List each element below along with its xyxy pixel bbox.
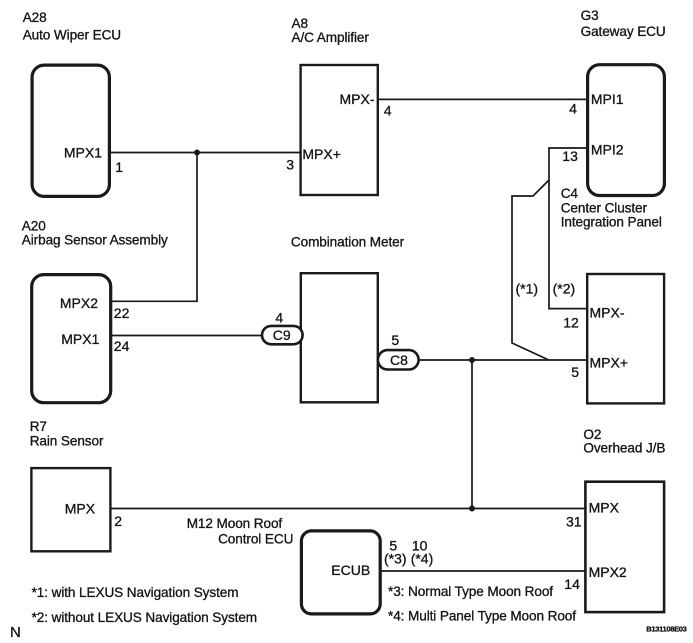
svg-text:MPX1: MPX1 [61, 331, 99, 347]
svg-text:MPX1: MPX1 [64, 145, 102, 161]
svg-text:Control ECU: Control ECU [218, 531, 293, 546]
svg-text:B131108E03: B131108E03 [646, 625, 686, 634]
svg-text:5: 5 [571, 364, 579, 380]
svg-text:Rain Sensor: Rain Sensor [30, 434, 104, 449]
svg-text:A8: A8 [292, 16, 308, 31]
svg-text:MPI1: MPI1 [591, 91, 624, 107]
svg-text:Overhead J/B: Overhead J/B [583, 441, 665, 456]
svg-text:4: 4 [275, 309, 283, 325]
svg-text:MPX: MPX [589, 500, 620, 516]
svg-text:*2: without LEXUS Navigation S: *2: without LEXUS Navigation System [32, 610, 257, 625]
svg-text:(*1): (*1) [516, 281, 539, 297]
svg-text:5: 5 [391, 332, 399, 348]
svg-text:Gateway ECU: Gateway ECU [581, 24, 666, 39]
svg-text:Combination Meter: Combination Meter [291, 234, 405, 249]
svg-text:C4: C4 [561, 186, 579, 201]
svg-text:Airbag Sensor Assembly: Airbag Sensor Assembly [22, 232, 168, 247]
svg-text:(*3): (*3) [384, 550, 407, 566]
svg-text:24: 24 [114, 338, 130, 354]
svg-text:MPX: MPX [65, 501, 96, 517]
svg-text:*3: Normal Type Moon Roof: *3: Normal Type Moon Roof [388, 584, 553, 599]
svg-text:MPI2: MPI2 [591, 142, 624, 158]
svg-text:G3: G3 [581, 8, 599, 23]
svg-text:*1: with LEXUS Navigation Syst: *1: with LEXUS Navigation System [32, 585, 239, 600]
svg-text:Integration Panel: Integration Panel [561, 215, 662, 230]
svg-text:(*4): (*4) [411, 550, 434, 566]
svg-text:N: N [10, 624, 21, 641]
svg-text:Auto Wiper ECU: Auto Wiper ECU [23, 27, 121, 42]
svg-text:(*2): (*2) [553, 281, 576, 297]
svg-text:MPX-: MPX- [590, 304, 625, 320]
svg-text:Center Cluster: Center Cluster [561, 201, 648, 216]
svg-text:C9: C9 [273, 327, 291, 343]
svg-text:4: 4 [569, 101, 577, 117]
svg-text:13: 13 [562, 148, 578, 164]
svg-text:C8: C8 [390, 352, 408, 368]
svg-text:31: 31 [566, 513, 582, 529]
svg-text:14: 14 [564, 576, 580, 592]
svg-text:M12 Moon Roof: M12 Moon Roof [187, 516, 283, 531]
svg-text:12: 12 [563, 315, 579, 331]
svg-text:1: 1 [115, 159, 123, 175]
svg-text:22: 22 [114, 305, 130, 321]
svg-text:3: 3 [286, 157, 294, 173]
svg-text:MPX+: MPX+ [302, 146, 341, 162]
svg-text:ECUB: ECUB [331, 562, 370, 578]
svg-text:MPX-: MPX- [340, 91, 375, 107]
svg-text:MPX2: MPX2 [589, 564, 627, 580]
svg-text:A28: A28 [23, 10, 47, 25]
svg-text:A/C Amplifier: A/C Amplifier [292, 30, 370, 45]
svg-text:4: 4 [384, 103, 392, 119]
svg-text:*4: Multi Panel Type Moon Roof: *4: Multi Panel Type Moon Roof [388, 608, 576, 623]
svg-text:R7: R7 [30, 419, 47, 434]
svg-text:2: 2 [114, 513, 122, 529]
svg-text:MPX2: MPX2 [60, 295, 98, 311]
svg-text:MPX+: MPX+ [590, 354, 629, 370]
